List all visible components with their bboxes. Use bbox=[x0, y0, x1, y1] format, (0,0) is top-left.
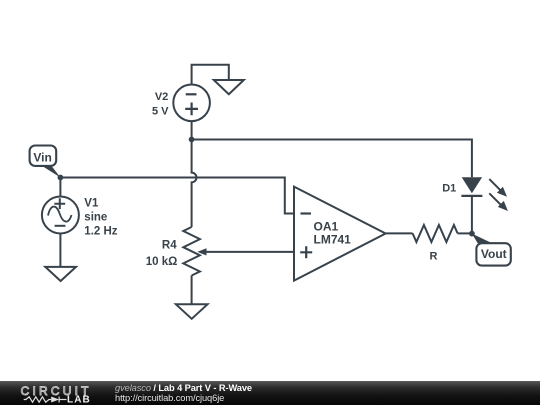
footer text bbox=[115, 383, 252, 403]
svg-text:R: R bbox=[430, 251, 438, 263]
flag Vin bbox=[30, 146, 61, 178]
wire R4 bottom to ground bbox=[191, 276, 193, 305]
footer bar bbox=[0, 381, 540, 405]
potentiometer R4 body bbox=[183, 227, 200, 276]
svg-text:R4: R4 bbox=[162, 239, 177, 251]
ground (below V1) bbox=[45, 267, 76, 281]
wire V2 bottom terminal to node A bbox=[191, 121, 193, 139]
op-amp OA1 bbox=[294, 187, 386, 281]
svg-text:LM741: LM741 bbox=[314, 233, 352, 247]
node B junction dot bbox=[469, 231, 475, 237]
D1 light emission arrows bbox=[489, 179, 508, 211]
wire OA1 output to resistor R bbox=[386, 232, 413, 234]
R4 wiper arrowhead bbox=[197, 248, 206, 255]
wire node Vin to V1 top terminal bbox=[59, 178, 61, 197]
svg-text:V1: V1 bbox=[84, 198, 99, 210]
svg-text:LAB: LAB bbox=[67, 394, 91, 405]
voltage source V1 (sine) bbox=[42, 197, 79, 234]
ground (top, for V2) bbox=[214, 80, 244, 94]
svg-text:D1: D1 bbox=[442, 182, 456, 194]
svg-text:5 V: 5 V bbox=[152, 105, 169, 117]
flag Vout bbox=[472, 234, 511, 266]
wire node A down to R4 (hops over Vin wire) bbox=[192, 140, 197, 228]
svg-text:1.2 Hz: 1.2 Hz bbox=[84, 226, 117, 238]
svg-text:sine: sine bbox=[84, 211, 107, 223]
node Vin junction dot bbox=[58, 175, 64, 181]
wire D1 cathode to node B bbox=[471, 197, 473, 234]
wire V1 bottom terminal to ground bbox=[59, 234, 61, 267]
wire OA1 non-inverting input to R4 wiper bbox=[205, 251, 294, 253]
wire V2 top terminal to ground bbox=[192, 65, 229, 85]
OA1 label "OA1 LM741" bbox=[314, 219, 352, 246]
CircuitLab logo bbox=[10, 381, 110, 405]
wire node Vin to OA1 inverting input bbox=[60, 178, 294, 214]
LED D1 bbox=[461, 177, 482, 196]
svg-text:OA1: OA1 bbox=[314, 219, 339, 233]
V1 value label "V1 sine 1.2 Hz" bbox=[84, 198, 117, 238]
svg-text:10 kΩ: 10 kΩ bbox=[146, 256, 178, 268]
wire node A to D1 anode (top rail) bbox=[192, 140, 472, 178]
voltage source V2 bbox=[173, 85, 210, 122]
svg-text:Vin: Vin bbox=[33, 150, 51, 164]
svg-text:Vout: Vout bbox=[481, 247, 507, 261]
ground (below R4) bbox=[176, 304, 208, 319]
svg-text:V2: V2 bbox=[155, 91, 168, 103]
R4 value label "R4 10 kOhm" bbox=[146, 239, 178, 268]
node A junction dot bbox=[189, 137, 195, 143]
resistor R bbox=[413, 225, 458, 242]
wire R to node B bbox=[458, 232, 472, 234]
V2 value label "V2 5 V" bbox=[152, 91, 169, 117]
